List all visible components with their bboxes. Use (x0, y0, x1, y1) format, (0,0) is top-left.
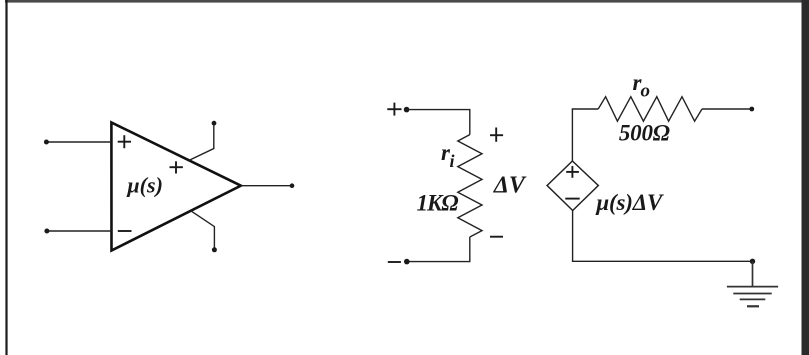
wire output top left segment (572, 108, 599, 110)
resistor ri 1Kohm zigzag (458, 135, 482, 237)
node ground junction (750, 259, 755, 264)
svg-text:i: i (450, 151, 455, 171)
wire noninverting input (46, 141, 111, 143)
svg-text:1KΩ: 1KΩ (417, 191, 459, 216)
wire input port bottom (407, 237, 470, 262)
wire bottom rail (572, 260, 753, 262)
wire output right segment (702, 108, 752, 110)
svg-text:o: o (641, 81, 651, 102)
wire output (241, 185, 292, 187)
resistor ro 500ohm zigzag (598, 97, 702, 122)
border frame right dark bar (802, 0, 809, 355)
svg-text:μ(s): μ(s) (126, 173, 162, 198)
node positive supply terminal (212, 121, 217, 126)
border frame top rule (5, 0, 809, 3)
label - of deltaV (490, 236, 503, 238)
ground symbol (727, 261, 778, 306)
wire dependent source bottom lead (572, 211, 574, 262)
op-amp U1 triangle (111, 123, 241, 251)
wire positive supply pin (189, 126, 214, 161)
node output terminal (290, 183, 295, 188)
wire dependent source top lead (571, 109, 573, 161)
svg-text:ΔV: ΔV (493, 173, 527, 199)
node output port terminal (749, 107, 754, 112)
label + of deltaV (490, 128, 503, 142)
label + noninverting input (118, 135, 131, 148)
node inverting input terminal (44, 229, 49, 234)
node input port bottom terminal (404, 259, 410, 265)
svg-text:μ(s)ΔV: μ(s)ΔV (595, 190, 664, 215)
dependent source E1 diamond (547, 161, 598, 211)
label - of dependent source (565, 198, 579, 200)
node input port top terminal (404, 107, 410, 113)
border frame left rule (5, 0, 7, 355)
node negative supply terminal (212, 247, 217, 252)
wire input port top (407, 110, 470, 135)
label - inverting input (118, 230, 132, 232)
label + positive supply (170, 161, 183, 173)
node noninverting input terminal (44, 140, 49, 145)
svg-text:500Ω: 500Ω (619, 121, 670, 146)
label - input port middle (388, 261, 401, 263)
label + input port middle (387, 103, 401, 116)
label + of dependent source (566, 166, 579, 178)
wire inverting input (47, 230, 112, 232)
wire negative supply pin (191, 211, 215, 248)
